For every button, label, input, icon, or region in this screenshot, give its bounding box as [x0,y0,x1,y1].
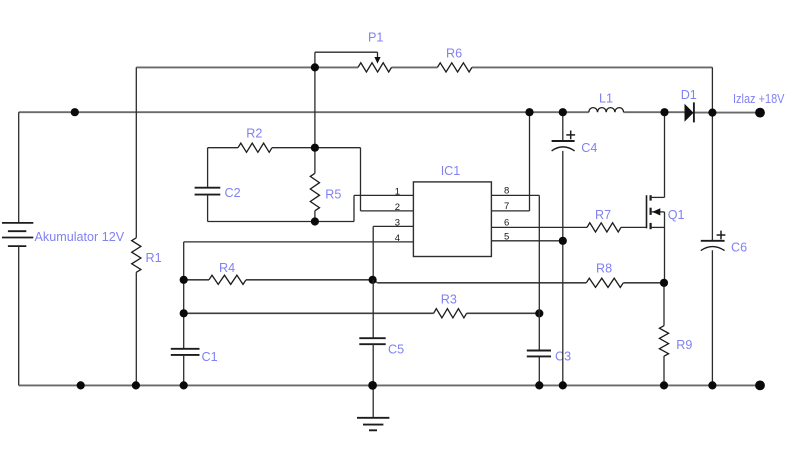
wire pin2 connection [361,148,414,211]
svg-text:Akumulator 12V: Akumulator 12V [35,230,125,244]
svg-text:R1: R1 [146,251,162,265]
node bottom rail stray junction [77,381,85,389]
node R3/C3 junction [535,309,543,317]
IC U1 (IC1 box) [413,182,491,257]
capacitor C5 [359,280,385,386]
svg-text:R6: R6 [446,47,462,61]
node L1/D1/Q1 drain junction [660,108,668,116]
resistor R8 [586,278,623,287]
node P1 wiper junction [311,63,319,71]
svg-text:Izlaz +18V: Izlaz +18V [733,92,785,106]
transistor Q1 (N-MOSFET) [647,112,665,283]
resistor R4 [209,275,246,284]
wire pin 4 to left branch [184,242,414,349]
node C1 bottom junction [180,381,188,389]
svg-text:R9: R9 [676,338,692,352]
svg-text:L1: L1 [599,91,613,105]
resistor R1 [132,238,141,272]
capacitor C6 [701,231,726,251]
svg-text:C2: C2 [225,186,241,200]
wire pin 3 to R4 junction [373,226,413,279]
svg-text:IC1: IC1 [441,164,461,178]
battery B1 Akumulator 12V [2,112,33,385]
svg-text:D1: D1 [681,88,697,102]
node C6 bottom junction [708,381,716,389]
wire pin 5 [491,240,562,242]
svg-text:1: 1 [395,186,400,197]
potentiometer P1 [315,52,392,72]
resistor R3 [434,309,467,318]
svg-text:C6: C6 [731,240,747,254]
node output terminal [755,108,765,118]
wire output right vertical [711,67,713,385]
wire R2/C2 loop top [208,147,361,149]
node R2/R5 junction [311,144,319,152]
svg-text:R5: R5 [325,188,341,202]
node D1 cathode/C6 junction [708,109,716,117]
wire +12V supply rail [19,111,760,113]
wire P1 node to R2/R5 junction [314,67,316,147]
wire top rail (P1/R6 feedback line) [136,66,712,68]
node pin7 riser junction [525,108,533,116]
wire R3 line [184,312,540,314]
node R5/C2 bottom junction [311,217,319,225]
node pin5/C4 junction [559,237,567,245]
svg-text:R2: R2 [246,127,262,141]
node pin3/R4/C5 junction [369,276,377,284]
ground [357,385,389,430]
svg-text:R4: R4 [219,261,235,275]
wire C4 bottom to ground rail [562,241,564,386]
svg-text:Q1: Q1 [668,208,685,222]
diode D1 [685,102,694,122]
node C3 bottom junction [535,381,543,389]
capacitor C1 [171,349,200,386]
wire R1 branch vertical [135,67,137,385]
capacitor C2 [195,148,221,222]
svg-text:R3: R3 [441,292,457,306]
inductor L1 [589,108,624,113]
capacitor C3 [527,351,551,357]
capacitor C4 [552,112,576,241]
node Q1 source/R8/R9 junction [660,279,668,287]
wire ground/bottom rail [19,384,760,386]
svg-text:C5: C5 [388,343,404,357]
node pin4/R4 junction [180,276,188,284]
node C4 net bottom junction [559,381,567,389]
resistor R6 [437,63,472,72]
resistor R5 [310,148,319,222]
svg-text:P1: P1 [368,31,383,45]
node bottom output terminal [755,381,765,391]
resistor R9 [659,283,668,386]
wire pin 6 / gate line [491,226,646,228]
wire C2 loop bottom / pin1 connection [208,195,414,221]
svg-text:C1: C1 [202,350,218,364]
svg-text:R8: R8 [596,262,612,276]
wire pin 8 to C3 vertical [491,195,539,385]
svg-text:C4: C4 [581,141,597,155]
wire R4/R8 line [184,280,664,283]
node R3 left junction [180,309,188,317]
svg-text:2: 2 [395,202,400,213]
node R1 bottom junction [132,381,140,389]
node C4 top junction [559,108,567,116]
svg-text:R7: R7 [595,208,611,222]
node supply rail stray junction [71,108,79,116]
node R9 bottom junction [660,381,668,389]
wire pin 7 to supply rail [491,112,529,211]
resistor R7 [587,223,621,232]
node ground junction [368,381,377,390]
resistor R2 [238,143,272,152]
